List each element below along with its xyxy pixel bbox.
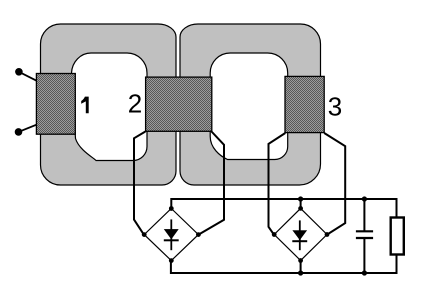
core 2 (right transformer core) bbox=[180, 24, 321, 185]
terminal dot (lower input) bbox=[15, 128, 23, 136]
diode D1 (inside bridge B1) bbox=[164, 219, 179, 250]
wire (positive bus: bridge B1 top to resistor top) bbox=[171, 199, 396, 218]
wire (bridge B2 top stub) bbox=[300, 199, 302, 208]
label 1 (winding 1, drawn as path) bbox=[81, 97, 89, 114]
junction (bridge B2 right corner) bbox=[325, 232, 330, 237]
diode bridge B1 (diamond) bbox=[144, 209, 198, 261]
wire (capacitor bottom lead) bbox=[363, 238, 365, 273]
junction (bridge B1 right corner) bbox=[196, 232, 201, 237]
wire (lower terminal lead to winding 1) bbox=[19, 125, 37, 132]
winding 1 (primary) bbox=[36, 74, 75, 135]
resistor R1 (load) bbox=[391, 218, 404, 255]
wire (winding 3 right lead to bridge B2 right corner) bbox=[324, 133, 345, 235]
wire (negative bus: bridge B1 bottom to resistor bottom) bbox=[171, 255, 397, 274]
junction (capacitor bottom at bus) bbox=[362, 270, 367, 275]
capacitor C1 (filter capacitor plates) bbox=[356, 231, 373, 238]
terminal dot (upper input) bbox=[15, 68, 23, 76]
winding 2 (middle winding) bbox=[146, 77, 212, 131]
core 1 (left transformer core) bbox=[41, 24, 177, 185]
wire (winding 2 right lead to bridge B1 right corner) bbox=[198, 132, 224, 235]
diode bridge B2 (diamond) bbox=[274, 208, 327, 260]
wire (winding 2 left lead to bridge B1 left corner) bbox=[134, 132, 145, 235]
svg-text:2: 2 bbox=[128, 89, 142, 119]
wire (bridge B2 bottom stub) bbox=[300, 261, 302, 274]
diode D2 (inside bridge B2) bbox=[292, 220, 307, 250]
junction (bridge B2 left corner) bbox=[272, 232, 277, 237]
junction (bridge B2 bottom corner) bbox=[298, 258, 303, 263]
wire (upper terminal lead to winding 1) bbox=[19, 72, 37, 81]
junction (bridge B2 top corner) bbox=[298, 206, 303, 211]
junction (bridge B1 top corner) bbox=[169, 206, 174, 211]
wire (winding 3 left lead to bridge B2 left corner) bbox=[269, 133, 286, 235]
junction (bridge B2 bottom at bus) bbox=[298, 270, 303, 275]
wire (capacitor top lead) bbox=[363, 199, 365, 231]
junction (capacitor top at bus) bbox=[362, 196, 367, 201]
junction (bridge B1 bottom corner) bbox=[169, 258, 174, 263]
winding 3 (right winding) bbox=[285, 76, 324, 132]
junction (bridge B1 left corner) bbox=[142, 232, 147, 237]
svg-text:3: 3 bbox=[328, 92, 342, 122]
junction (bridge B2 top at bus) bbox=[298, 196, 303, 201]
